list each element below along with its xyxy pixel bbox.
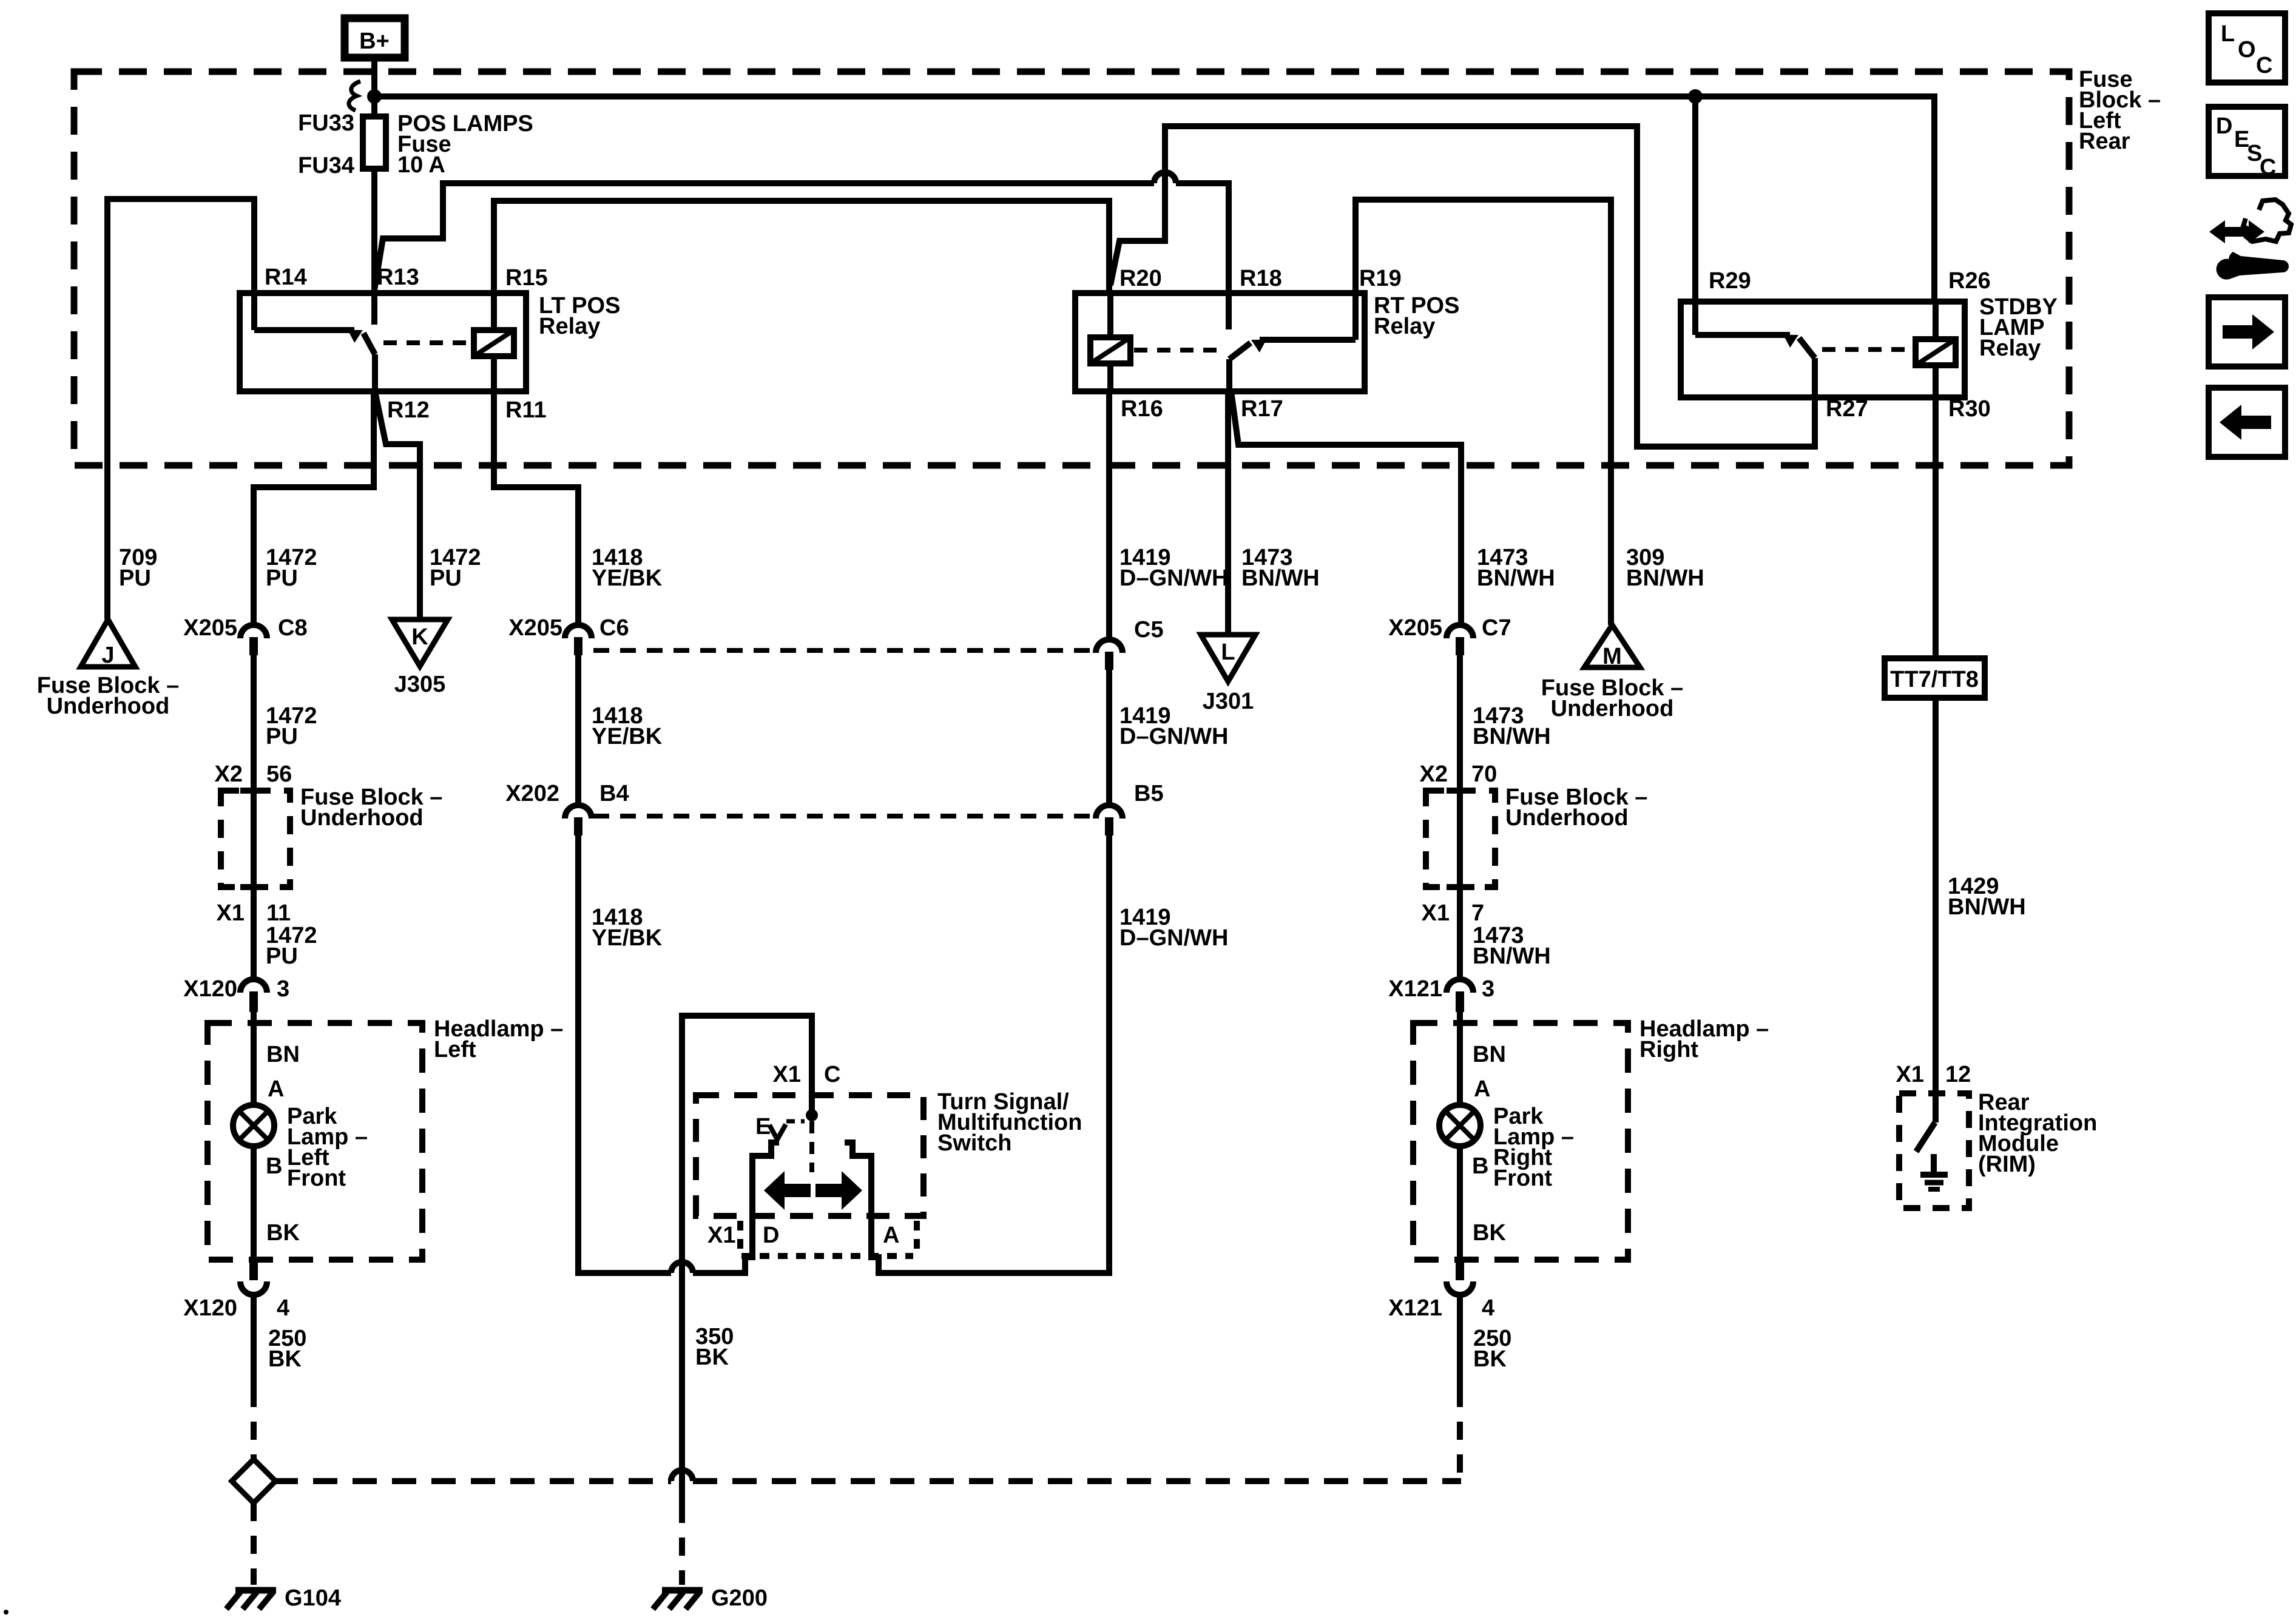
svg-text:Rear: Rear — [2079, 129, 2130, 154]
switch dashed box — [696, 1095, 923, 1216]
wire lamp to X120-4 — [251, 1146, 257, 1260]
wire R12 to C8 — [254, 391, 374, 625]
svg-text:R13: R13 — [377, 265, 419, 290]
svg-text:G104: G104 — [285, 1585, 341, 1611]
svg-text:Underhood: Underhood — [1505, 805, 1629, 831]
pin X2 70 — [1420, 761, 1497, 787]
wire B5 to switch pin A — [845, 836, 1109, 1273]
pin X1 12 — [1896, 1062, 1971, 1087]
svg-text:R30: R30 — [1948, 396, 1991, 422]
wire B4 to switch pin D — [578, 836, 779, 1273]
node C junction — [806, 1109, 818, 1121]
connector X205 C6 — [508, 615, 629, 655]
connector X120 4 — [183, 1260, 289, 1321]
svg-text:10 A: 10 A — [397, 152, 445, 178]
wire C7 to X2-70 — [1457, 655, 1463, 791]
relay STDBY LAMP — [1681, 268, 2058, 422]
wire through fuse block right — [1457, 791, 1463, 887]
svg-text:FU34: FU34 — [298, 153, 354, 178]
svg-text:YE/BK: YE/BK — [592, 925, 663, 951]
svg-text:D–GN/WH: D–GN/WH — [1119, 724, 1228, 749]
ground G104 — [226, 1585, 341, 1611]
stray mark — [4, 1610, 8, 1615]
svg-text:B4: B4 — [599, 781, 629, 806]
label fuse block left rear — [2079, 67, 2161, 154]
svg-text:FU33: FU33 — [298, 110, 354, 136]
svg-text:R20: R20 — [1119, 266, 1162, 291]
svg-text:Front: Front — [287, 1166, 346, 1191]
label 1418 YE/BK — [592, 703, 663, 749]
svg-text:X1: X1 — [217, 900, 245, 926]
svg-text:C6: C6 — [599, 615, 629, 641]
wire C8 to X2-56 — [251, 655, 257, 791]
wire splice bus dashed — [274, 1470, 1461, 1481]
fuse block left rear dashed box — [74, 72, 2069, 465]
wire R12 to J305 — [375, 391, 420, 619]
wire B+ to fuse — [371, 59, 377, 116]
svg-text:X121: X121 — [1388, 1295, 1442, 1321]
connector X202 B4 — [505, 781, 629, 836]
svg-text:Underhood: Underhood — [1551, 696, 1674, 721]
svg-text:A: A — [1474, 1076, 1490, 1102]
label 1473 BN/WH (J301 branch) — [1241, 545, 1320, 591]
wire to park lamp right — [1457, 1012, 1463, 1105]
wire R14 to fuse block underhood J — [107, 199, 254, 619]
wire R15 to R20 — [494, 201, 1109, 293]
wire through fuse block — [251, 791, 257, 887]
wire TT7/TT8 to RIM — [1933, 698, 1939, 1122]
sidebar icon LOC — [2209, 13, 2285, 83]
svg-text:L: L — [2221, 21, 2235, 47]
svg-text:X202: X202 — [505, 781, 559, 806]
relay LT POS — [240, 265, 620, 423]
grommet L J301 — [1201, 635, 1255, 714]
label 1473 BN/WH (C7 branch) — [1477, 545, 1555, 591]
svg-text:BN/WH: BN/WH — [1477, 565, 1555, 591]
label 1472 PU (J305 branch) — [430, 545, 481, 591]
svg-text:BN/WH: BN/WH — [1473, 724, 1551, 749]
label 1473 BN/WH — [1473, 703, 1551, 749]
wire R30 to TT7/TT8 — [1933, 397, 1939, 658]
ground G200 — [653, 1585, 768, 1611]
svg-text:C7: C7 — [1482, 615, 1511, 641]
wire lamp to X121-4 — [1457, 1146, 1463, 1260]
wire switch C to ground loop — [682, 1016, 812, 1266]
sidebar icon next arrow — [2209, 297, 2285, 366]
grommet M fuse block underhood — [1541, 625, 1683, 721]
wire R17 to C7 — [1231, 391, 1461, 625]
svg-text:BN/WH: BN/WH — [1241, 565, 1320, 591]
grommet K J305 — [392, 619, 448, 697]
svg-text:J305: J305 — [394, 672, 446, 697]
svg-text:C: C — [824, 1062, 840, 1087]
svg-text:(RIM): (RIM) — [1978, 1152, 2036, 1177]
relay RT POS — [1075, 266, 1459, 422]
svg-text:R12: R12 — [387, 397, 430, 423]
pin X1 11 — [217, 900, 291, 926]
svg-text:X1: X1 — [707, 1223, 735, 1248]
svg-text:X1: X1 — [1422, 900, 1450, 926]
svg-text:BN/WH: BN/WH — [1626, 565, 1704, 591]
svg-text:PU: PU — [266, 724, 298, 749]
wire R17 to J301 — [1225, 391, 1231, 635]
svg-text:R18: R18 — [1240, 266, 1282, 291]
headlamp right dashed box — [1413, 1023, 1628, 1260]
label 1472 PU (C8 branch) — [266, 545, 317, 591]
svg-text:Relay: Relay — [1979, 336, 2041, 361]
svg-text:Relay: Relay — [1374, 314, 1435, 339]
pin X2 56 — [215, 761, 292, 787]
wire B+ feed to STDBY relay — [374, 96, 1934, 302]
svg-text:X205: X205 — [183, 615, 237, 641]
wire 250 BK right — [1457, 1294, 1463, 1389]
svg-text:B: B — [1472, 1153, 1488, 1179]
node R29 tap — [1688, 89, 1703, 104]
connector X1 band dotted — [737, 1221, 743, 1251]
contact D — [752, 1143, 779, 1257]
svg-text:C: C — [2256, 53, 2272, 78]
svg-text:BK: BK — [1473, 1346, 1507, 1372]
wire fuse to R13 — [371, 169, 377, 293]
fuse FU33/FU34 POS LAMPS 10A — [298, 110, 533, 178]
fuse block underhood dashed box (right) — [1426, 791, 1495, 887]
label 1418 YE/BK — [592, 545, 663, 591]
svg-text:YE/BK: YE/BK — [592, 565, 663, 591]
sidebar icon back arrow — [2209, 388, 2285, 457]
fuse block underhood dashed box (left) — [221, 791, 290, 887]
svg-text:D–GN/WH: D–GN/WH — [1119, 925, 1228, 951]
wire R11 to C6 — [494, 391, 578, 625]
svg-text:A: A — [883, 1223, 899, 1248]
svg-text:L: L — [1221, 640, 1235, 665]
label 1419 D-GN/WH — [1119, 545, 1228, 591]
wire diamond to G104 — [251, 1503, 257, 1585]
wire C6 to B4 — [575, 655, 581, 805]
svg-text:4: 4 — [277, 1295, 289, 1321]
splice diamond — [232, 1459, 275, 1503]
battery B+ terminal — [345, 18, 405, 58]
connector X205 C8 — [183, 615, 307, 655]
svg-text:A: A — [268, 1076, 284, 1102]
svg-text:C8: C8 — [278, 615, 308, 641]
switch common dashed — [809, 1121, 814, 1172]
wire to X121-3 — [1457, 887, 1463, 979]
svg-text:X2: X2 — [1420, 761, 1448, 787]
svg-text:Left: Left — [434, 1037, 476, 1062]
svg-text:B: B — [266, 1153, 282, 1179]
connector X120 3 — [183, 976, 289, 1012]
wire C5 to B5 — [1106, 670, 1112, 805]
wire tap to R29 — [1692, 96, 1698, 302]
svg-text:PU: PU — [119, 565, 151, 591]
svg-text:YE/BK: YE/BK — [592, 724, 663, 749]
svg-text:R11: R11 — [505, 397, 547, 423]
svg-text:K: K — [411, 624, 428, 650]
svg-text:X121: X121 — [1388, 976, 1442, 1002]
clip mark — [349, 81, 360, 110]
svg-text:X120: X120 — [183, 976, 237, 1002]
svg-text:4: 4 — [1482, 1295, 1494, 1321]
wire R16 to C5 — [1106, 391, 1112, 640]
svg-text:Relay: Relay — [539, 314, 600, 339]
svg-text:R17: R17 — [1241, 396, 1283, 422]
svg-text:D: D — [763, 1223, 779, 1248]
svg-text:O: O — [2238, 37, 2256, 62]
contact A — [845, 1143, 871, 1257]
svg-text:70: 70 — [1471, 761, 1497, 787]
wire B4 to B5 dashed — [593, 814, 1092, 819]
svg-text:B5: B5 — [1134, 781, 1164, 806]
svg-text:X2: X2 — [215, 761, 243, 787]
svg-text:BK: BK — [268, 1346, 302, 1372]
headlamp left dashed box — [208, 1023, 422, 1260]
label 1419 D-GN/WH — [1119, 703, 1228, 749]
label 309 BN/WH — [1626, 545, 1704, 591]
label 1418 YE/BK — [592, 905, 663, 951]
rear integration module RIM — [1899, 1090, 2097, 1208]
svg-text:D–GN/WH: D–GN/WH — [1119, 565, 1228, 591]
svg-text:BK: BK — [1473, 1220, 1506, 1246]
park lamp left front bulb — [233, 1104, 368, 1191]
svg-text:BN: BN — [266, 1042, 300, 1067]
svg-text:C: C — [2260, 155, 2276, 180]
wire 250 BK left — [251, 1294, 257, 1389]
wire R13 branch to R18 — [374, 172, 1229, 329]
svg-text:Underhood: Underhood — [47, 694, 170, 719]
connector C5 — [1096, 617, 1164, 670]
svg-text:R29: R29 — [1709, 268, 1751, 294]
svg-text:11: 11 — [266, 900, 291, 926]
svg-text:R27: R27 — [1826, 396, 1868, 422]
svg-text:BN/WH: BN/WH — [1948, 894, 2026, 920]
wire R19 to fuse block underhood M — [1356, 200, 1611, 625]
svg-text:PU: PU — [266, 565, 298, 591]
svg-text:X1: X1 — [1896, 1062, 1924, 1087]
svg-text:Switch: Switch — [937, 1130, 1011, 1156]
svg-text:X1: X1 — [773, 1062, 801, 1087]
lever arrows — [764, 1171, 811, 1210]
svg-text:3: 3 — [1482, 976, 1494, 1002]
connector X205 C7 — [1388, 615, 1511, 655]
svg-text:D: D — [2216, 113, 2232, 139]
wire C6 to C5 dashed — [593, 648, 1092, 653]
svg-text:BN: BN — [1473, 1042, 1506, 1067]
connector X121 3 — [1388, 976, 1494, 1012]
svg-text:M: M — [1602, 644, 1622, 669]
svg-text:C5: C5 — [1134, 617, 1164, 643]
svg-text:Underhood: Underhood — [300, 805, 424, 831]
turn signal multifunction switch — [682, 1016, 1082, 1266]
label 1419 D-GN/WH — [1119, 905, 1228, 951]
wire X1-11 to X120-3 — [251, 887, 257, 979]
svg-text:BK: BK — [695, 1345, 729, 1370]
svg-text:J: J — [101, 643, 114, 668]
svg-text:X120: X120 — [183, 1295, 237, 1321]
svg-text:12: 12 — [1945, 1062, 1971, 1087]
svg-text:R14: R14 — [265, 265, 307, 290]
pin X1 7 — [1422, 900, 1485, 926]
svg-text:BK: BK — [266, 1220, 300, 1246]
wire R20 to R27 link — [1110, 126, 1815, 447]
connector X121 4 — [1388, 1260, 1494, 1321]
grommet J fuse block underhood — [37, 619, 179, 719]
svg-text:R16: R16 — [1121, 396, 1163, 422]
svg-text:7: 7 — [1471, 900, 1484, 926]
svg-text:X205: X205 — [1388, 615, 1442, 641]
tie TT7/TT8 — [1885, 658, 1985, 698]
label 709 PU — [119, 545, 157, 591]
svg-text:B+: B+ — [359, 29, 390, 54]
label 1429 BN/WH — [1948, 874, 2026, 920]
svg-text:PU: PU — [430, 565, 462, 591]
sidebar icon vehicle wrench — [2209, 200, 2291, 280]
label 1473 BN/WH — [1473, 923, 1551, 969]
svg-text:BN/WH: BN/WH — [1473, 944, 1551, 969]
node B+ junction — [367, 89, 382, 104]
park lamp right front bulb — [1439, 1104, 1574, 1191]
svg-text:Front: Front — [1493, 1166, 1552, 1191]
svg-text:R15: R15 — [505, 265, 548, 291]
label 1472 PU — [266, 703, 317, 749]
sidebar icon DESC — [2209, 107, 2285, 180]
connector B5 — [1096, 781, 1164, 836]
svg-text:J301: J301 — [1203, 689, 1254, 714]
svg-text:Right: Right — [1639, 1037, 1698, 1062]
wire to park lamp — [251, 1012, 257, 1105]
svg-text:TT7/TT8: TT7/TT8 — [1890, 667, 1979, 692]
svg-text:R19: R19 — [1359, 266, 1402, 291]
svg-text:R26: R26 — [1948, 268, 1991, 294]
svg-text:56: 56 — [266, 761, 292, 787]
svg-text:PU: PU — [266, 944, 298, 969]
label 1472 PU — [266, 923, 317, 969]
svg-text:3: 3 — [277, 976, 289, 1002]
svg-text:X205: X205 — [508, 615, 562, 641]
svg-text:G200: G200 — [711, 1585, 768, 1611]
wire 350 BK to G200 — [682, 1266, 734, 1585]
